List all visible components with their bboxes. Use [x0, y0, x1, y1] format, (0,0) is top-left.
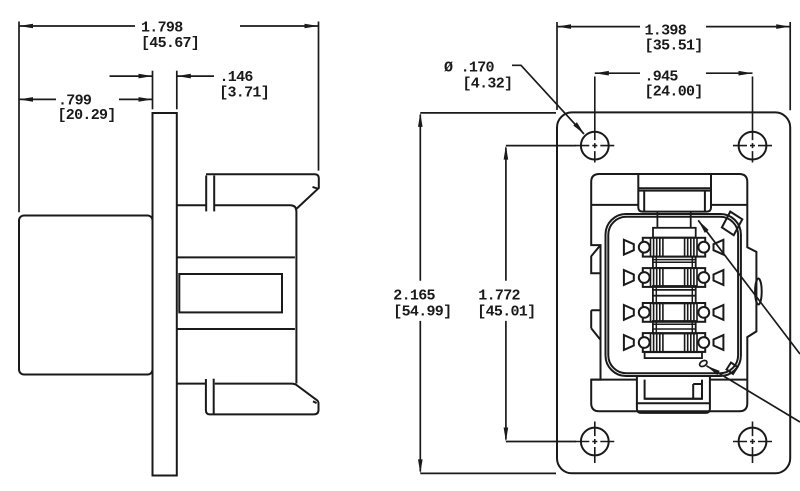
- svg-text:Ø .170: Ø .170: [444, 60, 495, 77]
- svg-text:[20.29]: [20.29]: [58, 107, 116, 124]
- svg-text:.146: .146: [220, 69, 254, 86]
- svg-text:[4.32]: [4.32]: [463, 75, 513, 92]
- svg-text:[35.51]: [35.51]: [645, 38, 703, 55]
- svg-text:[24.00]: [24.00]: [645, 83, 703, 100]
- svg-text:[54.99]: [54.99]: [393, 304, 451, 321]
- svg-text:[45.67]: [45.67]: [141, 35, 199, 52]
- svg-text:[45.01]: [45.01]: [477, 304, 535, 321]
- svg-text:[3.71]: [3.71]: [219, 85, 269, 102]
- svg-text:1.772: 1.772: [478, 288, 520, 305]
- svg-text:2.165: 2.165: [393, 288, 435, 305]
